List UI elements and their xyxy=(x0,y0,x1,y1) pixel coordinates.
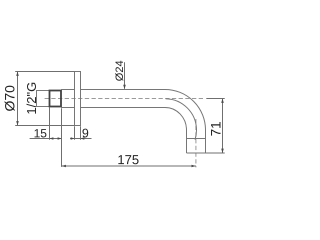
outlet tube vertical xyxy=(187,130,206,153)
dimension 15 xyxy=(30,107,62,167)
svg-text:175: 175 xyxy=(117,152,139,167)
wire: outlet vertical centerline xyxy=(195,119,197,167)
dimension Ø70 (vertical, far left) xyxy=(15,71,74,126)
dimension 9 xyxy=(70,126,92,139)
body section between hub and flange xyxy=(61,90,75,108)
wire: horizontal centerline xyxy=(45,98,205,100)
svg-text:71: 71 xyxy=(208,121,223,136)
escutcheon flange Ø70 xyxy=(75,72,81,126)
spout tube straight section xyxy=(81,90,166,108)
svg-text:9: 9 xyxy=(82,126,89,140)
threaded hub thick section xyxy=(50,91,62,107)
svg-text:1/2"G: 1/2"G xyxy=(24,82,39,115)
threaded nipple 1/2"G thin section xyxy=(37,91,50,107)
dimension 71 (vertical, right) xyxy=(206,98,225,153)
svg-text:Ø70: Ø70 xyxy=(2,85,18,112)
spout bend arcs xyxy=(165,90,206,140)
dimension 175 xyxy=(62,165,196,167)
svg-text:15: 15 xyxy=(34,126,48,140)
